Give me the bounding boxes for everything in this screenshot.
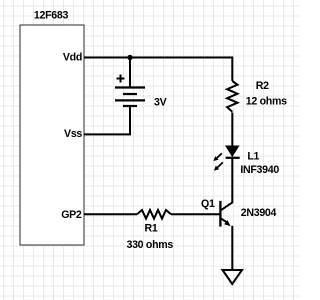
battery B1 plate long top bbox=[115, 86, 145, 88]
wire GP2 to R1 bbox=[84, 213, 137, 215]
svg-text:INF3940: INF3940 bbox=[240, 164, 279, 176]
resistor R2 bbox=[227, 81, 237, 112]
transistor Q1 emitter diagonal bbox=[221, 218, 228, 223]
battery B1 plate short upper bbox=[123, 93, 137, 95]
svg-text:330 ohms: 330 ohms bbox=[127, 239, 174, 251]
battery B1 plate short bottom bbox=[123, 105, 137, 107]
node junction dot bbox=[127, 55, 132, 60]
svg-text:L1: L1 bbox=[247, 151, 259, 163]
wire battery top bbox=[129, 58, 131, 88]
svg-text:12 ohms: 12 ohms bbox=[246, 96, 287, 108]
transistor Q1 emitter arrowhead bbox=[224, 220, 231, 226]
wire R1 to base bbox=[171, 213, 220, 215]
svg-text:R1: R1 bbox=[145, 223, 158, 235]
wire emitter to ground bbox=[231, 226, 233, 270]
wire R2 to LED bbox=[231, 113, 233, 147]
LED L1 emission arrow 1 bbox=[213, 153, 221, 161]
battery B1 plate long lower bbox=[115, 99, 145, 101]
svg-text:GP2: GP2 bbox=[61, 209, 82, 221]
IC U1 12F683 body bbox=[20, 25, 84, 245]
wire Vss bbox=[84, 133, 131, 135]
LED L1 cathode bar bbox=[226, 157, 240, 159]
wire Vdd rail bbox=[84, 57, 232, 59]
svg-text:3V: 3V bbox=[154, 97, 167, 109]
LED L1 emission arrow 2 bbox=[214, 162, 223, 170]
transistor Q1 base bar bbox=[219, 201, 221, 227]
LED L1 triangle bbox=[226, 146, 239, 156]
resistor R1 bbox=[137, 210, 171, 219]
transistor Q1 collector diagonal bbox=[221, 202, 232, 210]
wire battery bottom bbox=[129, 106, 131, 134]
svg-text:Q1: Q1 bbox=[201, 198, 215, 210]
svg-text:12F683: 12F683 bbox=[34, 10, 69, 22]
wire R2 drop bbox=[231, 57, 233, 82]
svg-text:R2: R2 bbox=[256, 80, 269, 92]
battery B1 plus sign bbox=[117, 75, 125, 83]
wire LED to collector bbox=[231, 158, 233, 204]
ground bbox=[223, 270, 243, 284]
svg-text:Vss: Vss bbox=[64, 128, 82, 140]
svg-text:Vdd: Vdd bbox=[63, 52, 82, 64]
svg-text:2N3904: 2N3904 bbox=[241, 207, 277, 219]
